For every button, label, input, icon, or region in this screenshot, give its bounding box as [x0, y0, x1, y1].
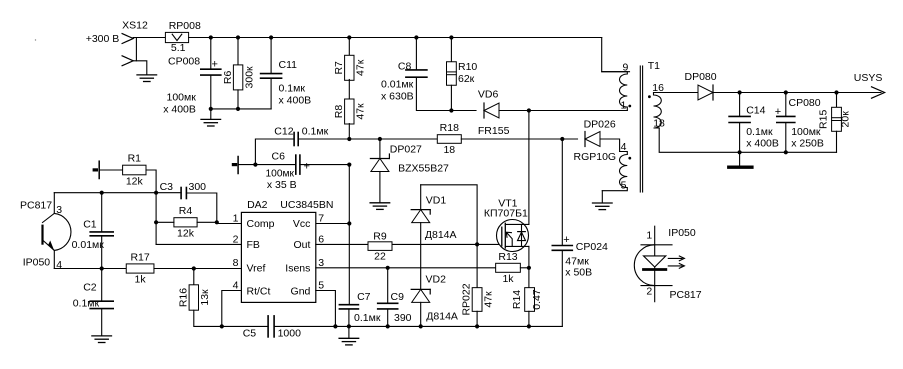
junction C7 bus — [347, 324, 351, 328]
svg-text:+: + — [563, 234, 569, 246]
junction C11 top — [269, 35, 273, 39]
capacitor CP080 — [777, 116, 795, 122]
transformer T1 core — [640, 66, 642, 192]
svg-text:20к: 20к — [840, 111, 852, 128]
wire DP027 stem — [379, 139, 381, 159]
svg-text:DP026: DP026 — [584, 119, 616, 131]
wire DP026 to pin4 — [600, 139, 620, 152]
wire C11 branch bottom — [270, 79, 272, 109]
junction R14 bus — [527, 324, 531, 328]
wire pin5 to ground — [601, 191, 603, 203]
wire secondary top rail — [654, 92, 699, 94]
wire CP008 branch — [210, 38, 212, 69]
junction Comp node — [215, 220, 219, 224]
svg-text:R4: R4 — [179, 205, 193, 217]
capacitor C3 — [181, 188, 186, 199]
wire VD1 stem top — [420, 185, 422, 210]
resistor R17 — [126, 251, 154, 285]
wire R10 top — [450, 38, 452, 62]
junction C6-column — [347, 163, 351, 167]
svg-text:DP080: DP080 — [685, 71, 717, 83]
svg-text:DA2: DA2 — [247, 199, 268, 211]
optocoupler phototransistor PC817/IP050 — [43, 193, 71, 269]
svg-text:1: 1 — [233, 213, 239, 225]
svg-text:3: 3 — [318, 257, 324, 269]
wire C14 top — [739, 93, 741, 116]
svg-text:0.1мк: 0.1мк — [73, 298, 100, 310]
wire terminal to R1 — [99, 169, 122, 171]
junction VD2 bus — [419, 324, 423, 328]
resistor R7 — [333, 55, 366, 80]
junction node A top — [154, 191, 158, 195]
terminal stub left of C6 — [233, 157, 238, 174]
junction RtCt bus — [220, 324, 224, 328]
junction C12-column — [347, 137, 351, 141]
wire bus to C5 — [222, 325, 268, 327]
svg-text:0.01мк: 0.01мк — [72, 239, 105, 251]
wire R18 to DP026 — [461, 138, 577, 140]
wire ground rail — [211, 108, 271, 110]
svg-text:VD1: VD1 — [426, 195, 447, 207]
svg-text:C7: C7 — [357, 291, 371, 303]
svg-text:IP050: IP050 — [23, 257, 51, 269]
wire secondary bottom rail — [659, 128, 836, 152]
svg-text:RGP10G: RGP10G — [574, 151, 617, 163]
svg-text:8: 8 — [233, 257, 239, 269]
svg-text:300: 300 — [189, 181, 207, 193]
wire Gnd pin5 — [316, 291, 336, 327]
svg-text:390: 390 — [394, 312, 412, 324]
wire CP008 to ground rail — [210, 76, 212, 109]
wire C14 ground stem — [739, 152, 741, 166]
junction C14 bottom — [738, 150, 742, 154]
svg-text:12k: 12k — [126, 175, 144, 187]
wire C9 bottom — [387, 310, 389, 327]
ground at XS12 — [137, 75, 157, 82]
svg-text:C8: C8 — [398, 60, 412, 72]
capacitor C5 — [268, 316, 274, 337]
polarity dot auxiliary — [628, 157, 631, 160]
svg-text:47к: 47к — [355, 103, 367, 120]
svg-text:9: 9 — [622, 62, 628, 74]
resistor R9 — [368, 231, 392, 263]
resistor R16 — [178, 285, 211, 310]
junction DP027 top — [378, 137, 382, 141]
wire VD1 top link — [421, 185, 477, 245]
resistor R10 — [447, 62, 457, 86]
wire R14 top — [528, 268, 530, 288]
svg-text:0.1мк: 0.1мк — [279, 83, 306, 95]
wire C14 bottom — [739, 123, 741, 152]
wire R4 right — [197, 221, 217, 223]
svg-text:Д814А: Д814А — [426, 310, 458, 322]
svg-text:Out: Out — [293, 239, 310, 251]
svg-text:Comp: Comp — [247, 218, 275, 230]
svg-text:BZX55B27: BZX55B27 — [398, 163, 449, 175]
svg-text:4: 4 — [621, 141, 627, 153]
junction C14 top — [738, 90, 742, 94]
resistor R6 — [222, 65, 255, 90]
svg-text:R16: R16 — [178, 288, 190, 307]
wire C3 right — [186, 193, 216, 222]
wire RP022 column — [476, 244, 478, 287]
svg-text:XS12: XS12 — [122, 20, 148, 32]
svg-text:х 400В: х 400В — [279, 94, 312, 106]
svg-text:R9: R9 — [373, 231, 387, 243]
capacitor C8 — [406, 70, 427, 77]
wire XS12 to RP008 — [133, 37, 165, 39]
wire R16 top — [193, 269, 195, 285]
svg-text:4: 4 — [233, 280, 239, 292]
zener diode VD2 — [411, 289, 430, 302]
wire R4 left — [156, 221, 174, 223]
ground below C7 — [339, 338, 359, 345]
svg-text:C1: C1 — [83, 219, 97, 231]
svg-text:4: 4 — [56, 259, 62, 271]
junction R10 top — [449, 35, 453, 39]
wire R8 bottom — [348, 124, 350, 139]
svg-text:КП707Б1: КП707Б1 — [484, 208, 528, 220]
wire VD6 to pin1 — [499, 110, 627, 112]
junction R6 top — [236, 35, 240, 39]
wire C12 right — [298, 138, 349, 140]
capacitor C12 — [294, 133, 298, 146]
svg-text:R6: R6 — [222, 71, 234, 85]
capacitor C7 — [339, 305, 358, 309]
capacitor C2 — [90, 301, 113, 308]
value C11 — [279, 83, 312, 107]
svg-text:+: + — [304, 161, 310, 173]
wire VD6 row left — [451, 110, 476, 112]
wire Vcc pin7 — [316, 223, 350, 225]
wire emitter row — [54, 268, 126, 270]
wire VD1-VD2 — [420, 223, 422, 290]
svg-text:VD6: VD6 — [478, 89, 499, 101]
arrowhead USYS — [872, 87, 885, 98]
svg-text:47к: 47к — [483, 291, 495, 308]
svg-text:PC817: PC817 — [20, 200, 52, 212]
wire R6 branch bottom — [237, 90, 239, 109]
wire CP024 column bottom — [561, 251, 563, 327]
svg-text:х 400В: х 400В — [163, 104, 196, 116]
wire C9 top — [387, 268, 389, 303]
junction R10 bottom — [449, 108, 453, 112]
junction R16 top — [192, 266, 196, 270]
ground bar secondary — [729, 165, 752, 168]
junction CP080 top — [784, 90, 788, 94]
svg-text:18: 18 — [443, 144, 455, 156]
junction R7 top — [347, 35, 351, 39]
svg-text:0.1мк: 0.1мк — [354, 312, 381, 324]
svg-text:3: 3 — [56, 204, 62, 216]
capacitor C11 — [261, 74, 282, 79]
svg-text:C12: C12 — [274, 126, 293, 138]
svg-text:C5: C5 — [243, 328, 257, 340]
junction C1 top — [100, 191, 104, 195]
svg-text:R8: R8 — [333, 105, 345, 119]
resistor R1 — [123, 153, 146, 188]
wire column C6 to Vcc — [348, 165, 350, 224]
transformer T1 auxiliary winding pins 4-5 — [602, 152, 627, 191]
svg-text:C6: C6 — [272, 151, 286, 163]
wire C3 row — [156, 192, 181, 194]
svg-text:2: 2 — [646, 285, 652, 297]
svg-text:DP027: DP027 — [390, 144, 422, 156]
wire C7 ground stem — [348, 326, 350, 337]
resistor R13 — [496, 251, 521, 285]
svg-text:13к: 13к — [199, 289, 211, 306]
optocoupler LED IP050/PC817 — [634, 226, 672, 302]
svg-text:C2: C2 — [83, 282, 97, 294]
wire gate row — [392, 243, 501, 245]
svg-text:CP008: CP008 — [168, 56, 200, 68]
ground below pin 5 — [593, 203, 613, 210]
svg-text:0.01мк: 0.01мк — [381, 79, 414, 91]
wire FB — [156, 243, 241, 245]
capacitor C1 — [90, 232, 113, 236]
svg-text:100мк: 100мк — [791, 126, 821, 138]
value CP008 — [163, 91, 196, 115]
value C8 — [381, 79, 414, 103]
svg-text:R15: R15 — [818, 110, 830, 129]
svg-text:IP050: IP050 — [668, 227, 696, 239]
svg-text:RP022: RP022 — [461, 283, 473, 315]
svg-text:FB: FB — [247, 239, 260, 251]
svg-text:R10: R10 — [458, 61, 477, 73]
svg-text:1k: 1k — [502, 273, 514, 285]
svg-text:Д814А: Д814А — [425, 229, 457, 241]
svg-text:47к: 47к — [355, 59, 367, 76]
junction C8 top — [414, 35, 418, 39]
wire CP024 column top — [561, 139, 563, 245]
value CP080 — [791, 126, 824, 149]
svg-text:+300 В: +300 В — [86, 33, 120, 45]
svg-text:22: 22 — [374, 250, 386, 262]
wire CP080 top — [785, 93, 787, 116]
wire CP080 bottom — [785, 123, 787, 152]
fusible resistor RP008 — [165, 20, 201, 54]
svg-text:R13: R13 — [498, 251, 517, 263]
junction CP024 top — [560, 137, 564, 141]
capacitor CP024 — [552, 246, 572, 251]
junction drain top — [527, 108, 531, 112]
wire C1 column — [101, 193, 103, 232]
wire Comp — [217, 222, 242, 223]
wire C7 bottom — [348, 310, 350, 327]
svg-text:300к: 300к — [243, 66, 255, 89]
wire DP080 to USYS — [713, 92, 881, 94]
svg-text:х 400В: х 400В — [746, 138, 779, 150]
transformer T1 secondary winding pins 16-18 — [654, 93, 662, 129]
junction CP008 top — [209, 35, 213, 39]
svg-text:х 50В: х 50В — [565, 267, 592, 279]
diode VD6 — [484, 103, 499, 118]
capacitor C14 — [729, 116, 750, 122]
svg-text:х 630В: х 630В — [381, 91, 414, 103]
connector XS12 pin contacts — [122, 34, 133, 66]
svg-text:х 35 В: х 35 В — [267, 179, 297, 191]
svg-text:0.1мк: 0.1мк — [746, 126, 773, 138]
svg-text:T1: T1 — [648, 60, 660, 72]
svg-text:47мк: 47мк — [565, 255, 589, 267]
wire R13 right — [520, 267, 529, 269]
wire source — [528, 246, 530, 267]
junction R13-R14-source — [527, 266, 531, 270]
wire C8 top — [415, 38, 417, 70]
junction C1-C2 — [100, 266, 104, 270]
wire DP027 to ground — [379, 172, 381, 203]
transistor VT1 KP707B1 — [497, 220, 529, 252]
svg-text:R14: R14 — [511, 290, 523, 309]
wire Out pin6 — [316, 243, 368, 245]
wire R17 to Vref — [154, 268, 241, 270]
wire C12 row to R18 — [349, 138, 437, 140]
IC DA2 UC3845BN — [241, 212, 315, 302]
svg-text:C3: C3 — [160, 181, 174, 193]
zener diode VD1 — [411, 210, 430, 223]
wire C6 right — [300, 164, 349, 166]
diode DP026 — [585, 132, 600, 147]
svg-text:5: 5 — [621, 180, 627, 192]
value CP024 — [565, 255, 592, 278]
wire RP022 bottom — [476, 311, 478, 326]
svg-text:0.47: 0.47 — [531, 289, 543, 310]
terminal stub left of R1 — [94, 161, 99, 178]
wire R1 to node A — [146, 170, 156, 244]
wire RtCt — [222, 291, 242, 327]
svg-text:Rt/Ct: Rt/Ct — [247, 285, 271, 297]
capacitor C6 — [296, 155, 300, 174]
junction C12 branch — [253, 163, 257, 167]
wire R15 bottom — [836, 131, 838, 152]
junction CP080 bottom — [784, 150, 788, 154]
svg-text:5: 5 — [318, 280, 324, 292]
capacitor C9 — [378, 303, 398, 309]
svg-text:1: 1 — [646, 230, 652, 242]
svg-text:0.1мк: 0.1мк — [302, 126, 329, 138]
svg-text:C14: C14 — [746, 105, 765, 117]
wire C8 bottom to VD6 row — [416, 78, 451, 111]
wire VD2 bottom — [420, 302, 422, 326]
svg-text:Isens: Isens — [285, 262, 310, 274]
wire rail to transformer pin 9 — [602, 38, 630, 72]
wire R15 top — [836, 93, 838, 108]
wire C1 bottom — [101, 236, 103, 268]
svg-text:х 250В: х 250В — [791, 138, 824, 150]
polarity dot primary — [628, 105, 631, 108]
junction R6 bottom — [236, 107, 240, 111]
svg-text:C11: C11 — [279, 59, 298, 71]
wire R7-R8 — [348, 80, 350, 100]
svg-text:100мк: 100мк — [167, 91, 197, 103]
resistor R18 — [437, 122, 461, 156]
svg-text:RP008: RP008 — [169, 20, 201, 32]
wire column Vcc to C7 — [348, 224, 350, 305]
wire C11 branch top — [270, 38, 272, 74]
svg-text:62к: 62к — [458, 73, 475, 85]
svg-text:Vref: Vref — [247, 262, 266, 274]
wire R14 bottom — [528, 311, 530, 326]
svg-text:UC3845BN: UC3845BN — [280, 199, 333, 211]
wire C12 branch up — [255, 139, 294, 165]
svg-text:R18: R18 — [440, 122, 459, 134]
zener diode DP027 — [370, 154, 389, 172]
wire XS12 lower pin to ground — [133, 61, 147, 75]
diode DP080 — [698, 85, 713, 100]
svg-text:+: + — [212, 58, 218, 70]
wire R10 bottom — [450, 85, 452, 110]
transformer T1 primary winding pins 9-1 — [602, 72, 628, 111]
svg-text:PC817: PC817 — [670, 289, 702, 301]
wire R17 left — [102, 268, 127, 270]
wire R7 top — [348, 38, 350, 57]
capacitor CP008 — [201, 69, 221, 75]
svg-text:7: 7 — [318, 213, 324, 225]
ground below DP027 — [370, 203, 390, 210]
wire drain — [528, 111, 530, 225]
polarity dot secondary — [648, 95, 651, 98]
junction Gnd bus — [333, 324, 337, 328]
speck artifact — [35, 39, 36, 40]
junction CP008 bottom — [209, 107, 213, 111]
resistor R4 — [174, 205, 197, 239]
junction Vcc-column — [347, 221, 351, 225]
value C14 — [746, 126, 779, 149]
svg-text:Vcc: Vcc — [293, 218, 311, 230]
resistor R14 — [511, 288, 543, 312]
svg-text:1k: 1k — [135, 274, 147, 286]
wire Isens pin3 — [316, 267, 496, 269]
wire top +300V rail — [189, 37, 602, 39]
junction R15 top — [834, 90, 838, 94]
wire terminal to C6 — [238, 164, 296, 166]
wire R16 bottom — [194, 310, 222, 326]
pin numbers DA2 — [233, 213, 325, 292]
svg-text:5.1: 5.1 — [171, 42, 186, 54]
svg-text:2: 2 — [233, 233, 239, 245]
wire bus C5 to CP024 — [274, 325, 562, 327]
wire ground stem CP008 — [210, 109, 212, 119]
svg-text:Gnd: Gnd — [291, 285, 311, 297]
resistor R15 — [818, 107, 852, 131]
wire C2 to ground — [101, 309, 103, 335]
svg-text:1: 1 — [620, 99, 626, 111]
svg-text:FR155: FR155 — [478, 125, 510, 137]
svg-text:1000: 1000 — [278, 328, 302, 340]
value C6 — [266, 169, 297, 191]
svg-text:R7: R7 — [333, 61, 345, 75]
svg-text:VD2: VD2 — [426, 273, 447, 285]
svg-text:R1: R1 — [128, 153, 142, 165]
resistor RP022 — [461, 283, 495, 315]
svg-text:C9: C9 — [391, 291, 405, 303]
ground below C2 — [92, 336, 112, 343]
ground below CP008 — [201, 119, 221, 126]
svg-text:+: + — [775, 106, 781, 118]
junction node A R4 — [154, 220, 158, 224]
LED light arrows — [668, 256, 684, 268]
svg-text:R17: R17 — [130, 251, 149, 263]
svg-text:CP080: CP080 — [789, 97, 821, 109]
resistor R8 — [333, 99, 366, 124]
svg-text:6: 6 — [318, 233, 324, 245]
svg-text:CP024: CP024 — [576, 241, 608, 253]
junction gate node — [475, 242, 479, 246]
wire XS12 pin link — [135, 39, 137, 61]
wire C2 column — [101, 269, 103, 301]
svg-text:USYS: USYS — [854, 72, 883, 84]
junction C9 bus — [386, 324, 390, 328]
